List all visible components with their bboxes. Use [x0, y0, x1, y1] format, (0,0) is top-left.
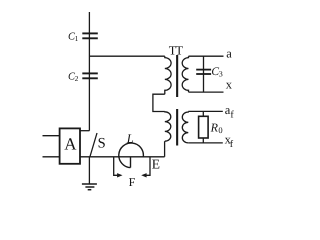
resistor R0: [199, 116, 209, 138]
svg-text:2: 2: [75, 74, 79, 83]
ground: [82, 184, 97, 190]
transformer TT primary winding lower section: [165, 112, 171, 142]
capacitor C2: [82, 73, 98, 78]
svg-text:TT: TT: [169, 43, 184, 57]
svg-text:E: E: [152, 157, 160, 172]
wire HV lead top: [88, 12, 90, 33]
wire TT primary bottom to bus node E: [164, 141, 166, 157]
svg-text:x: x: [226, 77, 233, 91]
transformer TT primary winding upper section: [165, 56, 171, 94]
wire C3 top lead: [203, 56, 205, 92]
wire C1 to C2: [88, 33, 90, 78]
wire R0 bottom lead: [202, 138, 204, 143]
spark gap F left electrode: [114, 157, 123, 178]
capacitor C1: [82, 33, 98, 38]
svg-text:A: A: [64, 135, 77, 154]
core bar lower: [176, 109, 178, 146]
wire stub lower-left of A (bus): [43, 156, 60, 158]
wire terminal x: [189, 91, 224, 93]
wire terminal af: [188, 110, 223, 112]
switch S blade: [90, 133, 97, 157]
wire switch contact to box A: [80, 130, 89, 132]
wire C2 down to switch contact: [88, 78, 90, 130]
wire bottom bus: [80, 156, 165, 158]
svg-text:3: 3: [219, 70, 223, 79]
wire terminal xf: [188, 142, 223, 144]
svg-text:F: F: [129, 175, 136, 189]
transformer TT secondary winding upper (a-x): [182, 56, 188, 92]
svg-text:1: 1: [75, 34, 79, 43]
wire stub upper-left of A: [43, 135, 60, 137]
core bar upper: [176, 55, 178, 97]
wire divider tap node to TT primary: [89, 55, 164, 57]
wire ground drop: [88, 157, 90, 184]
wire series jog between primary sections: [153, 94, 165, 111]
svg-text:S: S: [98, 135, 106, 151]
svg-text:0: 0: [218, 125, 222, 135]
transformer TT secondary winding lower (af-xf): [182, 111, 188, 143]
svg-text:R: R: [210, 121, 219, 135]
svg-text:a: a: [226, 46, 232, 60]
wire R0 top lead: [202, 111, 204, 116]
capacitor C3: [196, 70, 211, 74]
inductor L (single-turn loop): [119, 143, 144, 168]
wire terminal a: [189, 55, 224, 57]
spark gap F right electrode: [141, 157, 150, 178]
svg-text:L: L: [126, 132, 134, 146]
box A (coupling device): [60, 128, 80, 163]
